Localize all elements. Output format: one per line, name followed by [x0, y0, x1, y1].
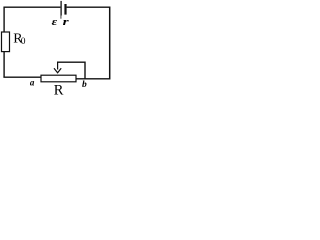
resistor R0 box	[2, 32, 10, 52]
svg-text:0: 0	[21, 37, 26, 47]
wire: bottom-left horizontal to rheostat terminal a	[3, 76, 41, 78]
wire: top-left horizontal segment to battery	[4, 6, 60, 8]
wire: vertical drop from wiper wire to bottom-right wire	[84, 62, 86, 79]
wire: right vertical from top corner down to bottom-right wire	[109, 7, 111, 80]
battery E short thick plate	[64, 4, 66, 15]
wire: top-right horizontal segment from battery to right corner	[67, 6, 110, 8]
svg-text:R: R	[54, 83, 64, 96]
wiper arrow stem	[57, 62, 59, 69]
wire: left vertical from top corner to R0	[3, 7, 5, 32]
wire: wiper horizontal to the right	[57, 61, 85, 63]
svg-text:b: b	[82, 80, 87, 90]
battery E long plate lower faded tail	[60, 15, 62, 18]
battery E long plate	[60, 1, 62, 16]
rheostat R box	[41, 75, 76, 82]
svg-text:a: a	[30, 77, 35, 87]
svg-text:r: r	[63, 15, 70, 27]
wire: bottom-right horizontal from rheostat terminal b to right corner	[76, 78, 110, 80]
wiper arrowhead	[54, 68, 61, 73]
svg-text:ε: ε	[52, 15, 58, 28]
wire: left vertical from R0 to bottom corner	[3, 52, 5, 77]
